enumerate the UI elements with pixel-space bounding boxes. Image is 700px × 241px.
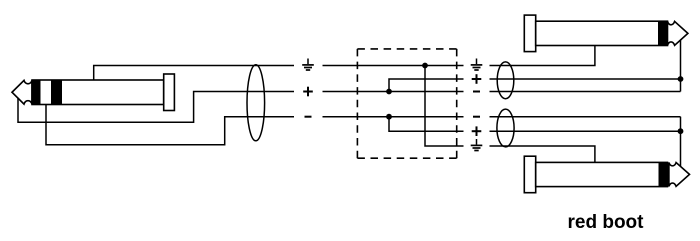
wire: shield top segment to J2 sleeve — [490, 45, 595, 65]
wire: shield branch in box down — [425, 66, 464, 147]
wire: minus branch in box to bottom jack plus — [389, 117, 464, 132]
jack plug J1 collar — [164, 74, 175, 111]
wire: shield line segment to box — [323, 65, 464, 67]
wire: J3 tip rise — [680, 117, 682, 167]
minus symbol (right column, top group) — [473, 91, 480, 93]
minus symbol (left column) — [305, 116, 312, 118]
jack plug J3 body — [536, 162, 668, 186]
ground symbol (right column, bottom group) — [471, 139, 483, 151]
wire: minus bottom segment to J3 tip node — [490, 116, 681, 118]
plus symbol (right column, bottom group) — [472, 126, 482, 136]
jack plug J1 body — [32, 80, 164, 105]
wire: plus bottom segment to tip node — [490, 130, 681, 132]
jack plug J1 tip insulator ring (black band 1) — [32, 80, 41, 105]
wire: plus top segment to tip node — [490, 78, 681, 80]
jack plug J3 (mono TS, bottom right) collar — [524, 156, 535, 193]
junction dot (J3 tip node) — [678, 128, 684, 134]
jack plug J2 insulator ring — [658, 21, 668, 45]
junction dot (J2 tip node) — [678, 76, 684, 82]
wire: minus line segment to box — [323, 116, 464, 118]
wire: J1 ring loop down — [46, 105, 294, 145]
ground symbol (left column) — [302, 59, 314, 71]
plus symbol (right column, top group) — [472, 74, 482, 84]
wire: J1 tip loop down — [18, 92, 294, 123]
jack plug J3 tip — [669, 163, 690, 187]
cable shield ellipse (right top) — [497, 62, 514, 99]
wire: J2 tip drop — [680, 40, 682, 92]
jack plug J2 (mono TS, top right) collar — [524, 15, 535, 52]
wire: minus top segment to J2 tip node — [490, 91, 681, 93]
jack plug J1 ring insulator (black band 2) — [51, 80, 62, 105]
wire: plus line segment to box — [323, 91, 464, 93]
wire: plus branch in box to top jack plus — [389, 79, 464, 92]
jack plug J2 tip — [668, 21, 688, 45]
jack plug J2 body — [536, 21, 668, 45]
cable shield ellipse (right bottom) — [497, 109, 514, 147]
junction dot (plus line, box) — [386, 89, 392, 95]
plus symbol (left column) — [303, 87, 313, 97]
svg-text:red boot: red boot — [568, 212, 645, 233]
jack plug J1 (stereo TRS, left) tip — [12, 80, 32, 104]
wire: shield bottom segment to J3 sleeve — [490, 146, 595, 162]
junction dot (shield line, box) — [422, 63, 428, 69]
cable shield ellipse (left) — [247, 65, 265, 141]
minus symbol (right column, bottom group) — [473, 116, 480, 118]
dashed junction box — [357, 49, 456, 158]
jack plug J3 insulator ring — [659, 162, 669, 186]
ground symbol (right column, top group) — [471, 59, 483, 71]
wire: J1 sleeve to shield line — [94, 66, 294, 81]
junction dot (minus line, box) — [386, 114, 392, 120]
